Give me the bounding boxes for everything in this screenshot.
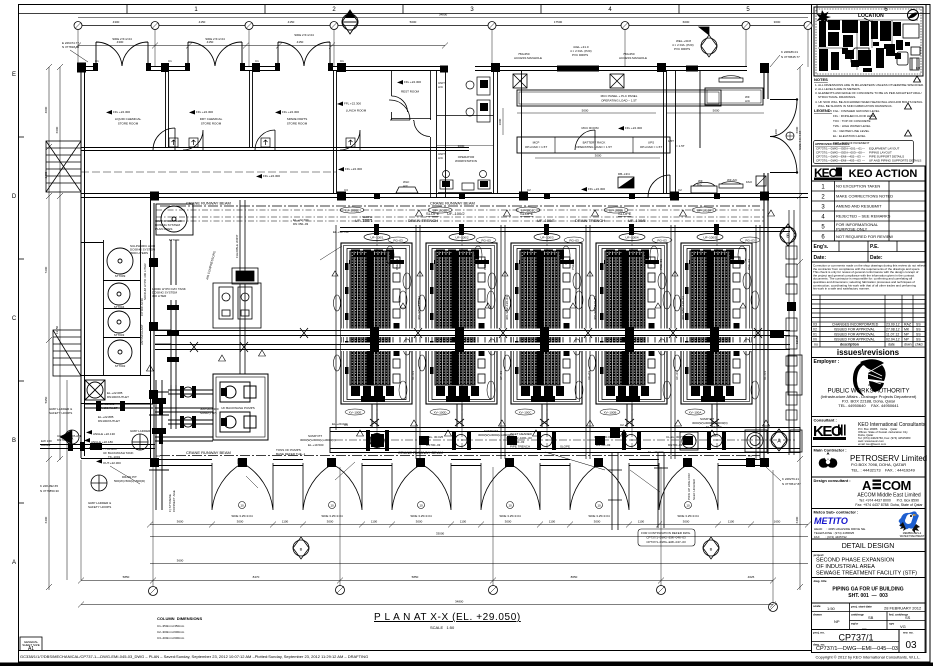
svg-text:STORE ROOM: STORE ROOM — [287, 122, 308, 126]
black pipe connectors at unit centers — [370, 327, 719, 352]
svg-text:__: __ — [861, 624, 867, 629]
svg-text:DN150/INLET: DN150/INLET — [99, 406, 118, 410]
svg-text:NP: NP — [904, 338, 910, 342]
svg-text:BASE REFER THE–1: BASE REFER THE–1 — [276, 452, 305, 456]
svg-text:3000(W)x3000(L)x3000(D): 3000(W)x3000(L)x3000(D) — [478, 433, 514, 437]
svg-text:drawn: drawn — [813, 613, 822, 617]
svg-text:UF–03: UF–03 — [763, 371, 767, 380]
svg-text:DRAIN TRENCH: DRAIN TRENCH — [575, 218, 605, 223]
svg-text:SS: SS — [916, 338, 921, 342]
svg-text:E: E — [12, 72, 16, 78]
svg-text:STRUCTURAL DRAWINGS.: STRUCTURAL DRAWINGS. — [818, 95, 856, 99]
pipe penetrations on hall top wall — [374, 193, 720, 199]
svg-text:WF A/C: WF A/C — [727, 178, 738, 182]
svg-text:NOTES: NOTES — [814, 77, 828, 82]
svg-text:MAKE CORRECTIONS NOTED: MAKE CORRECTIONS NOTED — [836, 194, 893, 199]
svg-text:NP: NP — [904, 333, 910, 337]
svg-text:UF–03: UF–03 — [675, 371, 679, 380]
svg-text:Design consultant :: Design consultant : — [814, 478, 851, 483]
svg-text:Eng's.: Eng's. — [814, 244, 829, 250]
svg-text:PLAN LINES: PLAN LINES — [155, 227, 172, 231]
svg-text:5850: 5850 — [412, 575, 419, 579]
svg-text:VG: VG — [900, 624, 906, 629]
warning triangle 2 — [905, 103, 912, 109]
svg-text:27.08.12: 27.08.12 — [886, 328, 900, 332]
svg-text:CRANE RUNWAY BEAM: CRANE RUNWAY BEAM — [186, 201, 231, 206]
svg-text:10: 10 — [330, 504, 334, 508]
petroserv trefoil logo — [819, 452, 838, 468]
svg-text:XV–100D: XV–100D — [434, 411, 448, 415]
svg-text:1100: 1100 — [460, 520, 467, 524]
svg-text:5000: 5000 — [582, 109, 589, 113]
svg-text:FFL +22.300: FFL +22.300 — [282, 110, 299, 114]
UF unit 2 (UF-100/2) — [417, 243, 497, 427]
top exterior wall (double line with door gaps) — [81, 67, 769, 71]
empty revision rows table — [812, 295, 926, 322]
bottom long dim — [81, 580, 773, 582]
svg-text:FFL +22.300: FFL +22.300 — [404, 80, 421, 84]
svg-text:ST7004: ST7004 — [114, 305, 125, 309]
rest room walls right — [391, 70, 817, 197]
svg-text:A: A — [12, 560, 16, 566]
svg-text:4150: 4150 — [288, 20, 295, 24]
MCC/right room divider wall — [664, 70, 667, 194]
right exterior wall — [764, 66, 768, 459]
svg-text:3000: 3000 — [458, 144, 465, 148]
svg-text:ST7002: ST7002 — [115, 364, 126, 368]
svg-text:drwn: drwn — [904, 343, 912, 347]
columns on hall top wall — [150, 192, 769, 201]
svg-text:SB: SB — [868, 615, 874, 620]
svg-text:FFL : FINISHED FLOOR LEVEL: FFL : FINISHED FLOOR LEVEL — [833, 114, 876, 118]
right dim chain — [799, 67, 801, 590]
svg-text:A/C: A/C — [403, 184, 409, 188]
svg-text:DN700–03: DN700–03 — [426, 443, 441, 447]
left drain pipes through wall — [40, 380, 169, 510]
svg-text:02: 02 — [813, 328, 817, 332]
svg-text:XV–100A: XV–100A — [689, 411, 702, 415]
svg-text:CITRIC ACID: CITRIC ACID — [140, 297, 144, 316]
svg-text:dwg. title: dwg. title — [814, 579, 827, 583]
grain dosing tank at hall top-left — [156, 204, 193, 235]
svg-text:UF BACKWASH PUMPS: UF BACKWASH PUMPS — [221, 406, 254, 410]
backwash pump suction pipes to left — [168, 240, 213, 429]
svg-text:ST7003: ST7003 — [114, 333, 125, 337]
zone numbers top — [194, 7, 888, 13]
A1 sheet size box — [20, 637, 42, 651]
svg-text:B: B — [300, 547, 303, 552]
svg-text:SLOPE: SLOPE — [362, 215, 372, 219]
zone ticks left — [19, 136, 25, 138]
svg-text:DN 350–03: DN 350–03 — [293, 222, 309, 226]
svg-text:SODIUM HYPO 300 LITER: SODIUM HYPO 300 LITER — [143, 263, 147, 300]
lower left valves — [96, 401, 163, 444]
svg-text:SIDE 3.25×3.04: SIDE 3.25×3.04 — [321, 514, 343, 518]
svg-text:ACCESS MANHOLE: ACCESS MANHOLE — [619, 56, 647, 60]
svg-text:PVC DRIPS: PVC DRIPS — [674, 47, 690, 51]
svg-text:5850: 5850 — [123, 575, 130, 579]
UF unit 3 (UF-100/3) — [502, 243, 582, 427]
svg-text:REST ROOM: REST ROOM — [401, 90, 420, 94]
svg-text:34800: 34800 — [455, 600, 464, 604]
second top chain — [78, 45, 445, 47]
horizontal pipe crossing units upper — [155, 331, 790, 336]
svg-text:DRY CHEMICAL: DRY CHEMICAL — [200, 117, 223, 121]
battery rack — [517, 137, 670, 153]
svg-text:3000: 3000 — [774, 20, 781, 24]
left exterior wall — [81, 66, 85, 458]
drain trench dashed lines — [156, 210, 764, 221]
svg-text:CL.EL. 30.025: CL.EL. 30.025 — [424, 435, 444, 439]
svg-text:CP737/1—DWG—EMI—045—03: CP737/1—DWG—EMI—045—03 — [816, 646, 898, 652]
svg-text:SIDE 3.25×3.04: SIDE 3.25×3.04 — [588, 514, 610, 518]
svg-text:= 1.5T: = 1.5T — [676, 144, 685, 148]
svg-text:PG–03: PG–03 — [481, 239, 491, 243]
sheet bottom thick edge — [0, 663, 933, 667]
svg-text:PG–03: PG–03 — [569, 239, 579, 243]
svg-text:Tel: +974 4437 8000 P.O.: Tel: +974 4437 8000 P.O. Box 8590 — [859, 499, 919, 503]
svg-text:DN700–03: DN700–03 — [596, 443, 611, 447]
unit centerlines dash-dot — [377, 233, 717, 448]
valve clusters on suction — [167, 305, 196, 428]
door size labels top — [112, 33, 314, 41]
svg-text:PSE–03: PSE–03 — [483, 259, 487, 270]
columns on bottom wall — [150, 458, 769, 467]
svg-text:D: D — [12, 194, 17, 200]
svg-text:GC338/1/1/7/DBS/MECHANICAL/CP7: GC338/1/1/7/DBS/MECHANICAL/CP737-1—DWG-E… — [20, 654, 368, 659]
svg-text:COLUMN DIMENSIONS: COLUMN DIMENSIONS — [157, 616, 202, 621]
svg-text:CRANE RUNWAY BEAM: CRANE RUNWAY BEAM — [430, 201, 475, 206]
svg-text:1000: 1000 — [498, 118, 502, 125]
filled revision rows — [812, 322, 926, 347]
svg-text:UF–03: UF–03 — [587, 371, 591, 380]
svg-text:MCC ROOM: MCC ROOM — [582, 126, 599, 130]
svg-text:LEGEND:: LEGEND: — [814, 108, 832, 113]
overall top dim — [78, 17, 808, 19]
svg-text:SIDE 2.5×2.04: SIDE 2.5×2.04 — [205, 37, 225, 41]
svg-text:CP737/1—DWG—EMI—403—03: CP737/1—DWG—EMI—403—03 — [816, 159, 861, 163]
svg-text:CL : CENTER LINE LEVEL: CL : CENTER LINE LEVEL — [833, 129, 870, 133]
svg-text:C1–350mm×350mm: C1–350mm×350mm — [157, 624, 185, 628]
sump pit right — [680, 430, 767, 452]
svg-text:ST7000: ST7000 — [169, 238, 180, 242]
svg-text:ASHGHAL: ASHGHAL — [868, 383, 883, 387]
svg-text:UF–1001B: UF–1001B — [609, 209, 623, 213]
svg-text:13150: 13150 — [55, 325, 59, 334]
svg-text:3000: 3000 — [594, 520, 601, 524]
svg-text:TEL. 44950640 FAX. 4495064: TEL. 44950640 FAX. 44950641 — [838, 403, 899, 408]
valves on crossing pipes — [190, 328, 762, 352]
svg-text:FFL +22.300: FFL +22.300 — [344, 102, 361, 106]
svg-text:3600: 3600 — [177, 520, 184, 524]
svg-text:FAO: FAO — [746, 180, 753, 184]
bottom exterior wall with louvre bays — [150, 460, 769, 466]
svg-text:34800: 34800 — [439, 13, 448, 17]
for contractor note box — [638, 529, 695, 546]
svg-text:PURPOSE ONLY: PURPOSE ONLY — [836, 227, 868, 232]
svg-text:SIDE 3.25×3.04: SIDE 3.25×3.04 — [677, 514, 699, 518]
left dim chains — [48, 67, 50, 590]
svg-text:STORE ROOM: STORE ROOM — [118, 122, 139, 126]
svg-text:C2–300mm×600mm: C2–300mm×600mm — [157, 630, 185, 634]
svg-text:13150: 13150 — [795, 335, 799, 344]
left lower pipes going to trench — [85, 404, 213, 441]
svg-text:OPERATING LOAD = 1.5T: OPERATING LOAD = 1.5T — [576, 145, 612, 149]
svg-text:6400: 6400 — [795, 516, 799, 523]
svg-text:02.04.12: 02.04.12 — [886, 338, 900, 342]
access manhole X-boxes — [513, 74, 624, 88]
svg-text:Metco Sub- contractor :: Metco Sub- contractor : — [814, 510, 859, 515]
svg-text:C: C — [12, 316, 17, 322]
pipe exit through right wall — [770, 330, 784, 338]
svg-text:10: 10 — [508, 504, 512, 508]
inter-unit vertical pipes — [336, 225, 760, 459]
bird logo blue — [899, 511, 920, 533]
svg-text:3000(W)x3000(L)x3000(D): 3000(W)x3000(L)x3000(D) — [300, 438, 336, 442]
svg-text:DB–L3/4: DB–L3/4 — [618, 172, 630, 176]
sump pit left top — [238, 459, 243, 464]
white clearing bands for crossing pipes — [341, 329, 752, 338]
small door arrows in doorways — [169, 138, 355, 147]
right wall pipe risers — [786, 210, 797, 455]
svg-text:PICK UP LINE FOR: PICK UP LINE FOR — [687, 473, 691, 500]
svg-text:3000: 3000 — [505, 520, 512, 524]
svg-text:SIDE 3.25×3.04: SIDE 3.25×3.04 — [499, 514, 521, 518]
WLF A/C on corridor wall — [396, 187, 418, 193]
svg-text:C3–400mm×600mm: C3–400mm×600mm — [157, 636, 185, 640]
svg-text:PSE–03: PSE–03 — [571, 259, 575, 270]
overall bottom dim 34800 — [81, 604, 773, 606]
svg-text:UF–100/5: UF–100/5 — [628, 218, 646, 223]
zone line top — [19, 13, 931, 15]
top dim labels — [113, 20, 781, 24]
approved drawings box — [814, 141, 914, 164]
bottom dim under doors — [150, 524, 808, 526]
svg-text:B: B — [12, 438, 16, 444]
svg-text:LIQUID CHEMICAL: LIQUID CHEMICAL — [115, 117, 142, 121]
svg-text:3000: 3000 — [237, 520, 244, 524]
svg-text:4300: 4300 — [113, 20, 120, 24]
svg-text:CP737/1–DWG–EMI–046–03: CP737/1–DWG–EMI–046–03 — [646, 536, 686, 540]
header fittings — [374, 224, 719, 235]
svg-text:issues\revisions: issues\revisions — [837, 348, 900, 357]
black lintel bars on top wall — [440, 66, 698, 73]
svg-text:ANGLE +22.130: ANGLE +22.130 — [93, 432, 115, 436]
svg-text:ST7009: ST7009 — [115, 274, 126, 278]
svg-text:K 228279.21: K 228279.21 — [782, 477, 799, 481]
svg-text:LUNCH ROOM: LUNCH ROOM — [346, 109, 367, 113]
svg-text:MCP: MCP — [533, 141, 540, 145]
svg-text:WATER TREATMENT: WATER TREATMENT — [900, 535, 925, 538]
svg-text:chkd: chkd — [915, 343, 922, 347]
svg-text:WORKSTATION: WORKSTATION — [455, 159, 477, 163]
svg-text:K 228186.01: K 228186.01 — [781, 50, 798, 54]
svg-text:4150: 4150 — [199, 20, 206, 24]
inlet header centerline — [335, 439, 795, 441]
svg-text:PVC DRIPS: PVC DRIPS — [572, 53, 588, 57]
svg-text:1200: 1200 — [774, 129, 778, 136]
svg-text:N 377818.40: N 377818.40 — [62, 45, 80, 49]
svg-text:A/C: A/C — [438, 85, 444, 89]
svg-text:date: date — [888, 343, 895, 347]
svg-text:33000: 33000 — [436, 532, 445, 536]
svg-text:PG–03: PG–03 — [393, 239, 403, 243]
leader arrows left labels — [84, 430, 102, 464]
svg-text:GRIP LADDER: GRIP LADDER — [130, 429, 151, 433]
svg-text:description: description — [840, 343, 859, 347]
WF A/C roof units — [719, 76, 743, 188]
svg-text:P.E.: P.E. — [870, 244, 879, 250]
top dim chain 1 — [78, 25, 808, 27]
svg-text:TOC : TOP OF CONCRETE: TOC : TOP OF CONCRETE — [833, 119, 870, 123]
svg-text:C1: C1 — [255, 59, 259, 63]
grip ladder circles — [91, 434, 148, 491]
svg-text:AMEND AND RESUBMIT: AMEND AND RESUBMIT — [836, 204, 882, 209]
corridor bottom wall / hall top wall — [81, 194, 808, 198]
operator workstation desks — [437, 77, 493, 193]
svg-text:CRANE RUNWAY BEAM: CRANE RUNWAY BEAM — [398, 450, 443, 455]
svg-text:LOCATION: LOCATION — [858, 13, 884, 19]
svg-text:rev. no.: rev. no. — [903, 631, 914, 635]
svg-text:OPERATING LOAD – 1.5T: OPERATING LOAD – 1.5T — [601, 99, 637, 103]
svg-text:C3: C3 — [748, 454, 752, 458]
title block outer box — [812, 5, 927, 653]
north star top-left — [817, 10, 832, 25]
svg-text:UF–100/5: UF–100/5 — [703, 236, 717, 240]
left grid bubbles mid — [65, 430, 79, 444]
svg-text:no: no — [814, 343, 818, 347]
svg-text:STORE ROOM: STORE ROOM — [201, 122, 222, 126]
north/section marker top — [342, 10, 358, 34]
svg-text:1:50: 1:50 — [827, 606, 836, 611]
PWA logo swoosh — [853, 361, 866, 396]
trench pump clusters — [366, 430, 763, 451]
svg-text:6600: 6600 — [795, 126, 799, 133]
svg-text:500(W)×500(L)×500(D): 500(W)×500(L)×500(D) — [114, 479, 145, 483]
svg-text:SCALE 1:50: SCALE 1:50 — [430, 625, 455, 630]
svg-text:4625: 4625 — [748, 575, 755, 579]
svg-text:3000: 3000 — [595, 154, 602, 158]
svg-text:ANTISCALANT: ANTISCALANT — [140, 324, 144, 345]
svg-text:300–WW–130–03: 300–WW–130–03 — [681, 296, 685, 320]
columns on top wall — [77, 63, 769, 74]
svg-text:P.O.BOX 7098, DOHA, QATAR: P.O.BOX 7098, DOHA, QATAR — [851, 462, 906, 467]
svg-text:TWL : HIGH WATER LEVEL: TWL : HIGH WATER LEVEL — [833, 124, 871, 128]
svg-text:6000: 6000 — [683, 20, 690, 24]
svg-text:TEL. : 44432173 FAX. : 4441: TEL. : 44432173 FAX. : 44419249 — [851, 468, 916, 473]
svg-text:28 FEBRUARY 2012: 28 FEBRUARY 2012 — [884, 606, 922, 611]
top grid bubbles — [74, 22, 812, 30]
louvre circled numbers — [239, 502, 692, 509]
svg-text:SLOPE: SLOPE — [560, 445, 570, 449]
svg-text:SIDE 3.25×3.04: SIDE 3.25×3.04 — [231, 514, 253, 518]
mcc panel labels — [0, 0, 1, 1]
notes top middle — [514, 39, 694, 60]
svg-text:A/C: A/C — [745, 99, 751, 103]
svg-text:300–WW–130–03: 300–WW–130–03 — [593, 296, 597, 320]
top pipe header above units — [340, 228, 790, 232]
svg-text:XV–1001E: XV–1001E — [345, 209, 359, 213]
svg-text:SUMP(TYP): SUMP(TYP) — [200, 411, 217, 415]
svg-text:K 228-092.65: K 228-092.65 — [40, 484, 58, 488]
svg-text:FGL : FINISHED GROUND LEVEL: FGL : FINISHED GROUND LEVEL — [833, 109, 880, 113]
svg-text:A: A — [862, 478, 872, 493]
right B diamond — [780, 224, 796, 246]
svg-text:DN100/OUTLET: DN100/OUTLET — [98, 419, 120, 423]
svg-text:OF INDUSTRIAL AREA: OF INDUSTRIAL AREA — [816, 564, 875, 570]
compass top-right — [908, 10, 919, 21]
horizontal pipe crossing units lower — [155, 345, 790, 350]
svg-text:proj. no.: proj. no. — [813, 631, 825, 635]
action rows table — [812, 181, 926, 241]
svg-text:KU: KU — [916, 66, 920, 70]
svg-text:Fax: +974 4437 8788 Doha, Sta: Fax: +974 4437 8788 Doha, State of Qatar — [855, 503, 923, 507]
svg-text:3000 LITERS: 3000 LITERS — [130, 251, 148, 255]
svg-text:XV–100E: XV–100E — [349, 411, 362, 415]
svg-text:Date:: Date: — [814, 255, 827, 261]
svg-text:TK–1001: TK–1001 — [108, 455, 121, 459]
svg-text:PIPING GA FOR UF BUILDING: PIPING GA FOR UF BUILDING — [832, 587, 903, 593]
svg-text:CRANE RUNWAY BEAM: CRANE RUNWAY BEAM — [186, 450, 231, 455]
svg-text:KEO ACTION: KEO ACTION — [849, 168, 918, 180]
svg-text:MK: MK — [904, 328, 910, 332]
svg-text:C2: C2 — [678, 188, 682, 192]
svg-text:SIDE 2.5×2.04: SIDE 2.5×2.04 — [294, 33, 314, 37]
svg-text:email: keo@keoic.com: email: keo@keoic.com — [858, 442, 887, 446]
svg-text:PG–03: PG–03 — [657, 239, 667, 243]
unit tag ovals — [364, 234, 723, 241]
svg-text:DN7000: DN7000 — [57, 438, 68, 442]
svg-text:4000: 4000 — [44, 106, 48, 113]
right door opening on right wall — [770, 100, 797, 173]
svg-text:Date:: Date: — [870, 255, 883, 261]
AECOM wordmark — [862, 478, 911, 493]
svg-text:XV–100C: XV–100C — [519, 411, 533, 415]
svg-text:PSE–03: PSE–03 — [659, 259, 663, 270]
FFL labels with flag arrows — [113, 80, 642, 191]
dim line right of bottom doors — [150, 563, 808, 565]
louvre labels — [231, 514, 699, 518]
svg-text:NP: NP — [834, 619, 840, 624]
crane runway beams — [160, 206, 760, 456]
UF unit 5 (UF-100/5) — [672, 243, 752, 427]
svg-text:FFL +22.300: FFL +22.300 — [113, 110, 130, 114]
svg-text:6600: 6600 — [55, 126, 59, 133]
hall left wall columns — [149, 258, 158, 399]
svg-text:3000: 3000 — [327, 520, 334, 524]
svg-text:5000: 5000 — [410, 20, 417, 24]
scattered small tags in unit gaps — [395, 259, 767, 380]
svg-text:METITO: METITO — [814, 516, 848, 526]
svg-text:SHT. 001 — 003: SHT. 001 — 003 — [848, 593, 888, 599]
svg-text:1650: 1650 — [774, 520, 781, 524]
KEO ACTION header band — [812, 166, 926, 181]
vertical grid lines down from wall — [78, 29, 808, 603]
svg-text:UF–1001D: UF–1001D — [433, 209, 448, 213]
svg-text:4150: 4150 — [297, 40, 304, 44]
svg-text:eq/sr: eq/sr — [851, 622, 859, 626]
svg-text:2400: 2400 — [44, 171, 48, 178]
svg-text:C1: C1 — [95, 59, 99, 63]
FAO box — [756, 176, 766, 186]
svg-text:UF–03: UF–03 — [499, 371, 503, 380]
svg-text:SIDE 2.5×2.04: SIDE 2.5×2.04 — [112, 37, 132, 41]
svg-text:Main Contractor :: Main Contractor : — [814, 448, 847, 453]
mcc room dims — [503, 108, 764, 158]
svg-text:SS: SS — [916, 328, 921, 332]
svg-text:8470: 8470 — [253, 575, 260, 579]
svg-text:scale: scale — [813, 604, 821, 608]
